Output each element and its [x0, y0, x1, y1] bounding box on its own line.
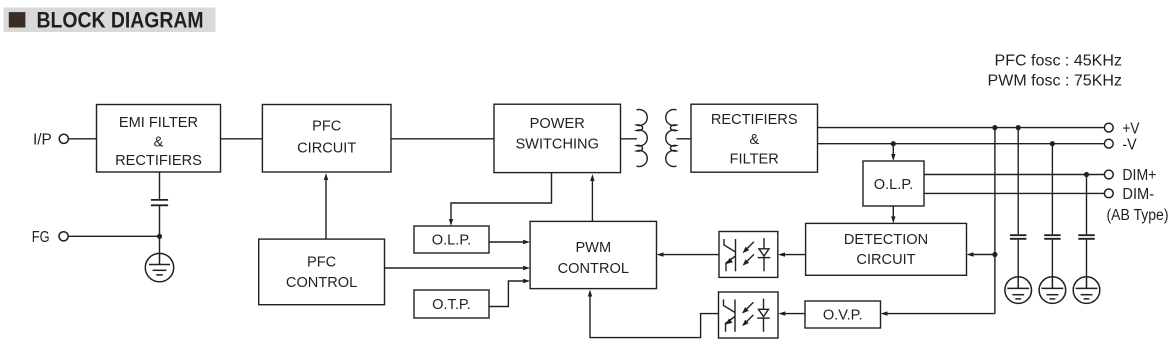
svg-text:+V: +V — [1122, 120, 1139, 137]
terminal DIM- — [1104, 189, 1113, 198]
arrow into O.L.P. output top — [891, 154, 895, 161]
capacitor C4 — [1078, 235, 1094, 239]
wire detection circuit to photocoupler PC1 — [784, 254, 806, 256]
arrow into power switching bottom — [590, 174, 594, 181]
svg-text:DETECTION: DETECTION — [844, 232, 928, 248]
wire photocoupler PC1 to PWM control — [662, 254, 719, 256]
arrow into PWM control right — [657, 252, 664, 256]
arrow into PWM control (PFC control) — [523, 266, 530, 270]
wire DIM- — [924, 192, 1105, 194]
arrow into photocoupler PC1 right — [778, 252, 785, 256]
header bullet square — [9, 12, 26, 27]
capacitor C3 — [1044, 235, 1060, 239]
box U8 O.L.P. (internal) — [414, 226, 489, 253]
arrow into PWM control (O.L.P.) — [523, 240, 530, 244]
svg-text:CONTROL: CONTROL — [558, 261, 629, 277]
wire photocoupler PC2 to PWM control bottom — [590, 296, 719, 338]
svg-text:DIM+: DIM+ — [1122, 167, 1156, 184]
wire PFC control to PWM control — [385, 267, 525, 269]
wire -V rail — [818, 143, 1105, 145]
wire +V sense drop — [994, 128, 996, 314]
wire O.V.P. to photocoupler PC2 — [784, 313, 805, 315]
svg-text:CIRCUIT: CIRCUIT — [297, 141, 356, 157]
svg-text:DIM-: DIM- — [1122, 186, 1154, 203]
svg-text:PFC: PFC — [312, 118, 341, 134]
svg-text:POWER: POWER — [530, 116, 585, 132]
wire PWM control to power switching — [591, 181, 593, 222]
wire capacitor C4 to ground — [1086, 240, 1088, 277]
svg-text:I/P: I/P — [33, 131, 52, 148]
arrow into detection circuit right — [967, 252, 974, 256]
svg-text:RECTIFIERS: RECTIFIERS — [115, 153, 202, 169]
wire O.T.P. to PWM control — [489, 281, 525, 307]
transformer T1 secondary winding — [666, 110, 677, 167]
svg-text:-V: -V — [1122, 136, 1137, 153]
svg-text:PWM: PWM — [575, 240, 611, 256]
header bar — [4, 8, 216, 33]
ground symbol FG earth — [145, 253, 173, 282]
box U6 DETECTION CIRCUIT — [806, 223, 967, 275]
terminal I/P — [59, 134, 68, 143]
svg-text:O.T.P.: O.T.P. — [432, 297, 471, 313]
box U10 PWM CONTROL — [530, 221, 656, 288]
wire sense to O.V.P. — [886, 313, 995, 315]
box U2 PFC CIRCUIT — [262, 105, 391, 173]
box U4 RECTIFIERS & FILTER — [691, 104, 818, 172]
transformer T1 primary winding — [637, 110, 648, 167]
node FG junction — [157, 234, 162, 239]
wire -V to capacitor C3 — [1051, 144, 1053, 235]
photocoupler PC2 — [719, 292, 779, 338]
wire sense to detection circuit — [972, 254, 995, 256]
wire O.L.P. output to detection circuit — [892, 206, 894, 218]
svg-text:(AB Type): (AB Type) — [1107, 207, 1169, 224]
svg-text:CIRCUIT: CIRCUIT — [856, 252, 915, 268]
wire FG to ground node — [68, 235, 160, 237]
wire I/P to EMI — [68, 138, 97, 140]
ground symbol earth 2 — [1039, 277, 1066, 304]
wire transformer secondary to rectifiers — [677, 138, 692, 140]
ground symbol earth 3 — [1073, 277, 1100, 304]
svg-text:RECTIFIERS: RECTIFIERS — [711, 112, 798, 128]
svg-text:FILTER: FILTER — [730, 151, 779, 167]
terminal +V — [1104, 123, 1113, 132]
box U1 EMI FILTER & RECTIFIERS — [97, 105, 221, 173]
box U9 O.T.P. — [414, 290, 489, 318]
arrow into O.V.P. right — [881, 311, 888, 315]
svg-text:BLOCK DIAGRAM: BLOCK DIAGRAM — [37, 8, 204, 33]
wire EMI bottom to capacitor C1 — [159, 172, 161, 199]
svg-text:CONTROL: CONTROL — [286, 275, 357, 291]
wire +V rail — [818, 127, 1105, 129]
svg-text:&: & — [749, 132, 759, 148]
wire DIM+ — [924, 174, 1105, 176]
terminal FG — [59, 232, 68, 241]
wire +V to capacitor C2 — [1017, 128, 1019, 235]
photocoupler PC1 — [719, 232, 778, 278]
box U3 POWER SWITCHING — [494, 104, 621, 172]
wire PFC circuit to PFC control (vertical) — [325, 180, 327, 240]
svg-text:FG: FG — [32, 229, 50, 246]
arrow into O.L.P. internal top — [449, 219, 453, 226]
svg-text:PWM fosc : 75KHz: PWM fosc : 75KHz — [988, 73, 1123, 90]
node DIM+ cap junction — [1084, 172, 1089, 177]
node -V O.L.P. junction — [891, 141, 896, 146]
arrow into PWM control bottom — [588, 290, 592, 297]
terminal -V — [1104, 139, 1113, 148]
svg-text:PFC fosc : 45KHz: PFC fosc : 45KHz — [995, 53, 1123, 70]
svg-text:PFC: PFC — [307, 255, 336, 271]
wire power switching to O.L.P. internal — [451, 173, 552, 220]
node +V junction — [992, 125, 997, 130]
box U11 O.V.P. — [805, 301, 881, 328]
box U7 PFC CONTROL — [259, 239, 385, 305]
arrow into detection circuit top — [891, 216, 895, 223]
svg-text:EMI FILTER: EMI FILTER — [119, 115, 198, 131]
arrow into PFC circuit bottom — [324, 173, 328, 180]
wire power switching to transformer primary — [621, 138, 638, 140]
box U5 O.L.P. (output) — [863, 161, 924, 206]
svg-text:O.L.P.: O.L.P. — [432, 233, 471, 249]
ground symbol earth 1 — [1005, 277, 1032, 304]
wire O.L.P. internal to PWM control — [489, 241, 525, 243]
arrow into PWM control (O.T.P.) — [523, 279, 530, 283]
arrow into photocoupler PC2 right — [778, 311, 785, 315]
wire capacitor C1 to ground — [159, 206, 161, 253]
node sense to detection junction — [992, 252, 997, 257]
node +V cap junction — [1016, 125, 1021, 130]
capacitor C2 — [1010, 235, 1026, 239]
svg-text:SWITCHING: SWITCHING — [515, 137, 599, 153]
terminal DIM+ — [1104, 170, 1113, 179]
wire EMI to PFC circuit — [221, 138, 263, 140]
svg-text:O.L.P.: O.L.P. — [874, 177, 913, 193]
wire PFC circuit to power switching — [391, 138, 494, 140]
capacitor C1 — [151, 200, 168, 205]
svg-text:O.V.P.: O.V.P. — [823, 308, 863, 324]
svg-text:&: & — [154, 134, 164, 150]
node -V cap junction — [1050, 141, 1055, 146]
wire capacitor C2 to ground — [1017, 240, 1019, 277]
wire capacitor C3 to ground — [1051, 240, 1053, 277]
wire DIM+ to capacitor C4 — [1086, 175, 1088, 235]
wire -V to O.L.P. output — [892, 144, 894, 156]
